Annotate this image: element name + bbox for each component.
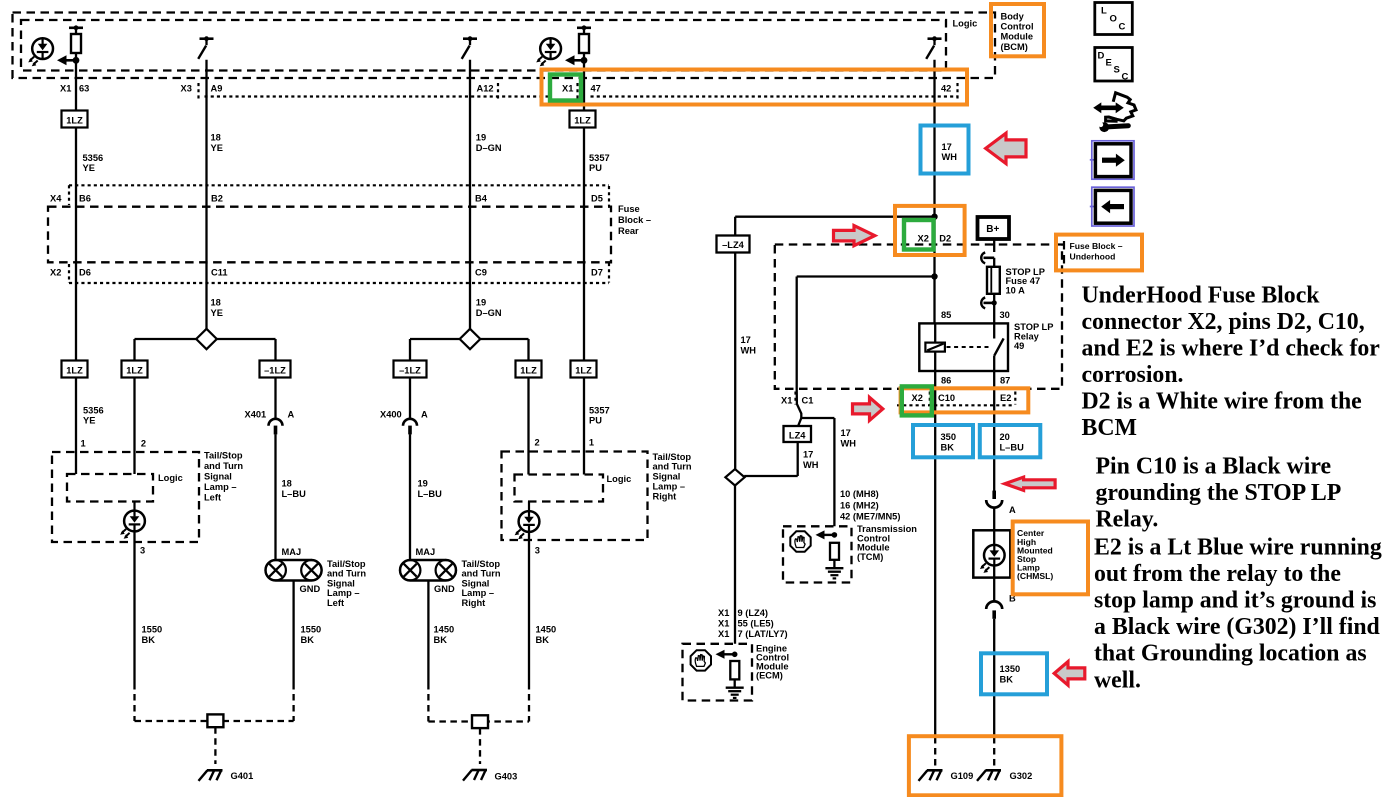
svg-text:UnderHood Fuse Block: UnderHood Fuse Block [1082,282,1321,308]
svg-text:G403: G403 [495,772,518,782]
svg-text:X1: X1 [562,84,573,94]
svg-text:X401: X401 [245,410,267,420]
svg-text:PU: PU [589,163,602,173]
svg-text:D5: D5 [591,194,603,204]
svg-text:X1: X1 [60,84,71,94]
svg-text:Underhood: Underhood [1070,251,1116,261]
svg-text:BCM: BCM [1082,415,1138,441]
svg-text:Relay.: Relay. [1096,506,1159,532]
svg-text:a Black wire (G302) I’ll find: a Black wire (G302) I’ll find [1094,614,1380,640]
svg-text:B4: B4 [475,194,488,204]
svg-text:BK: BK [434,635,448,645]
svg-text:O: O [1110,14,1117,25]
svg-text:2: 2 [535,438,540,448]
svg-text:out from the relay to the: out from the relay to the [1094,561,1341,587]
svg-text:C11: C11 [211,268,228,278]
svg-text:–1LZ: –1LZ [399,366,421,376]
svg-text:C: C [1122,72,1129,83]
svg-text:WH: WH [741,346,757,356]
svg-text:Tail/Stop: Tail/Stop [204,451,243,461]
svg-text:350: 350 [941,432,957,442]
svg-text:BK: BK [1000,675,1014,685]
svg-text:WH: WH [803,460,819,470]
svg-text:1450: 1450 [434,625,455,635]
svg-text:Left: Left [204,493,221,503]
svg-text:1: 1 [81,439,86,449]
svg-text:Lamp –: Lamp – [653,482,686,492]
svg-text:Logic: Logic [953,19,978,29]
svg-text:D2: D2 [939,233,951,243]
svg-text:Logic: Logic [607,474,632,484]
svg-text:19: 19 [418,479,428,489]
svg-text:and Turn: and Turn [204,461,243,471]
svg-text:17: 17 [841,428,851,438]
svg-text:87: 87 [1000,376,1010,386]
svg-text:C9: C9 [475,268,487,278]
svg-text:L: L [1101,6,1107,17]
svg-text:L–BU: L–BU [418,489,443,499]
svg-text:WH: WH [942,152,958,162]
svg-text:well.: well. [1094,667,1141,693]
svg-text:E2 is a Lt Blue wire running: E2 is a Lt Blue wire running [1094,535,1382,561]
svg-text:Right: Right [462,598,486,608]
svg-text:C10: C10 [938,393,955,403]
svg-text:C1: C1 [802,395,814,405]
svg-text:17: 17 [942,142,952,152]
svg-text:D7: D7 [591,268,603,278]
svg-text:55 (LE5): 55 (LE5) [738,619,774,629]
svg-text:1LZ: 1LZ [66,116,83,126]
svg-text:–1LZ: –1LZ [264,366,286,376]
svg-text:19: 19 [476,298,486,308]
svg-text:B+: B+ [986,224,999,235]
svg-text:D2 is a White wire from the: D2 is a White wire from the [1082,389,1362,415]
svg-text:85: 85 [941,310,951,320]
svg-text:86: 86 [941,376,951,386]
svg-text:1LZ: 1LZ [520,366,537,376]
svg-text:5356: 5356 [83,153,104,163]
svg-text:1450: 1450 [536,625,557,635]
svg-text:stop lamp and it’s ground is: stop lamp and it’s ground is [1094,588,1376,614]
svg-text:E2: E2 [1000,393,1011,403]
svg-text:X1: X1 [718,608,729,618]
svg-text:1350: 1350 [1000,664,1021,674]
svg-text:D–GN: D–GN [476,143,502,153]
svg-text:X1: X1 [718,619,729,629]
svg-text:and Turn: and Turn [462,569,501,579]
svg-text:X1: X1 [781,395,792,405]
svg-text:3: 3 [535,546,540,556]
svg-text:5357: 5357 [589,405,610,415]
svg-text:BK: BK [536,635,550,645]
svg-text:1LZ: 1LZ [575,366,592,376]
svg-text:grounding the STOP LP: grounding the STOP LP [1096,480,1342,506]
svg-text:connector X2, pins D2, C10,: connector X2, pins D2, C10, [1082,309,1365,335]
svg-text:BK: BK [142,635,156,645]
svg-text:–LZ4: –LZ4 [722,240,745,250]
svg-text:Body: Body [1001,11,1025,21]
svg-text:Signal: Signal [462,578,490,588]
svg-text:20: 20 [1000,432,1010,442]
svg-text:Lamp –: Lamp – [204,482,237,492]
svg-text:PU: PU [589,416,602,426]
svg-text:2: 2 [141,439,146,449]
svg-text:corrosion.: corrosion. [1082,362,1184,388]
svg-text:E: E [1106,58,1112,69]
svg-text:D6: D6 [79,268,91,278]
svg-text:G302: G302 [1010,771,1033,781]
svg-text:30: 30 [1000,310,1010,320]
svg-text:D–GN: D–GN [476,308,502,318]
svg-text:X4: X4 [50,194,62,204]
svg-text:Left: Left [327,598,344,608]
svg-text:47: 47 [591,84,601,94]
svg-text:19: 19 [476,133,486,143]
svg-text:Pin C10 is a Black wire: Pin C10 is a Black wire [1096,453,1332,479]
svg-text:GND: GND [434,584,455,594]
svg-text:A: A [288,410,295,420]
svg-text:D: D [1098,51,1105,62]
svg-text:A: A [421,410,428,420]
svg-text:X2: X2 [50,268,61,278]
svg-text:B6: B6 [79,194,91,204]
svg-text:Lamp –: Lamp – [462,588,495,598]
svg-text:X2: X2 [912,393,923,403]
svg-text:L–BU: L–BU [1000,443,1025,453]
svg-text:Signal: Signal [653,472,681,482]
svg-text:G401: G401 [231,771,254,781]
svg-text:and E2 is where I’d check for: and E2 is where I’d check for [1082,335,1381,361]
svg-text:X3: X3 [181,84,192,94]
svg-text:BK: BK [301,635,315,645]
svg-text:MAJ: MAJ [282,547,302,557]
svg-text:Signal: Signal [327,578,355,588]
svg-text:5356: 5356 [83,405,104,415]
svg-text:and Turn: and Turn [653,462,692,472]
svg-text:3: 3 [140,546,145,556]
svg-text:A: A [1009,505,1016,515]
svg-text:X1: X1 [718,629,729,639]
svg-text:42 (ME7/MN5): 42 (ME7/MN5) [840,512,900,522]
svg-text:18: 18 [282,479,292,489]
svg-text:MAJ: MAJ [416,547,436,557]
svg-text:(CHMSL): (CHMSL) [1017,571,1053,581]
svg-text:L–BU: L–BU [282,489,307,499]
svg-text:and Turn: and Turn [327,569,366,579]
svg-text:Rear: Rear [618,226,639,236]
svg-text:1LZ: 1LZ [574,116,591,126]
svg-text:(ECM): (ECM) [756,671,783,681]
svg-text:17: 17 [741,335,751,345]
svg-text:YE: YE [211,143,223,153]
svg-text:16 (MH2): 16 (MH2) [840,500,879,510]
svg-text:9 (LZ4): 9 (LZ4) [738,608,768,618]
svg-text:7 (LAT/LY7): 7 (LAT/LY7) [738,629,788,639]
svg-text:Fuse: Fuse [618,204,640,214]
svg-text:that Grounding location as: that Grounding location as [1094,641,1367,667]
svg-text:17: 17 [803,450,813,460]
svg-text:10 (MH8): 10 (MH8) [840,489,879,499]
svg-text:18: 18 [211,133,221,143]
svg-text:1LZ: 1LZ [66,366,83,376]
svg-text:Fuse Block –: Fuse Block – [1070,241,1123,251]
svg-text:(TCM): (TCM) [857,552,883,562]
svg-text:Signal: Signal [204,472,232,482]
svg-text:Module: Module [1001,32,1034,42]
svg-text:Control: Control [1001,22,1034,32]
svg-text:S: S [1114,65,1120,76]
svg-text:GND: GND [300,584,321,594]
svg-text:Tail/Stop: Tail/Stop [327,559,366,569]
svg-text:X400: X400 [380,410,402,420]
svg-text:B2: B2 [211,194,223,204]
svg-text:1LZ: 1LZ [126,366,143,376]
svg-text:A9: A9 [211,84,223,94]
svg-text:(BCM): (BCM) [1001,42,1028,52]
svg-text:YE: YE [83,416,95,426]
svg-text:Logic: Logic [158,473,183,483]
svg-text:LZ4: LZ4 [789,430,806,440]
svg-text:Block –: Block – [618,215,651,225]
svg-text:5357: 5357 [589,153,610,163]
svg-text:42: 42 [941,84,951,94]
svg-text:C: C [1119,22,1126,33]
svg-text:10 A: 10 A [1006,286,1026,296]
svg-text:Right: Right [653,491,677,501]
svg-text:1: 1 [589,438,594,448]
svg-text:YE: YE [83,163,95,173]
svg-text:YE: YE [211,308,223,318]
svg-text:18: 18 [211,298,221,308]
svg-text:Tail/Stop: Tail/Stop [462,559,501,569]
svg-text:BK: BK [941,443,955,453]
svg-text:G109: G109 [951,771,974,781]
svg-text:1550: 1550 [301,625,322,635]
svg-text:Lamp –: Lamp – [327,588,360,598]
svg-text:63: 63 [79,84,89,94]
svg-text:1550: 1550 [142,625,163,635]
svg-text:49: 49 [1014,341,1024,351]
svg-text:X2: X2 [918,233,929,243]
svg-text:A12: A12 [477,84,494,94]
svg-text:WH: WH [841,439,857,449]
svg-text:Tail/Stop: Tail/Stop [653,452,692,462]
